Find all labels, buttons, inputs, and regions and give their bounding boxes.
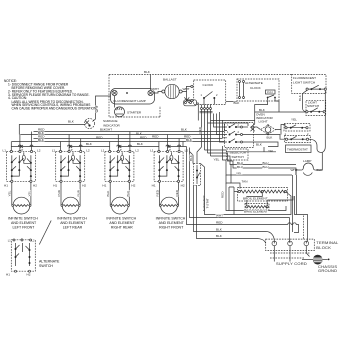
element right rear [106,182,136,229]
svg-text:SWITCH: SWITCH [307,104,319,108]
svg-text:BLK: BLK [68,120,75,124]
svg-text:WHT: WHT [152,87,159,91]
wire into oven indicator [251,112,286,131]
svg-text:SWITCH: SWITCH [232,155,244,159]
wire bus snake 5 [11,145,186,147]
svg-text:H2: H2 [33,184,37,188]
wire middle fan to selector [198,114,227,143]
svg-text:H1: H1 [152,184,156,188]
svg-text:BLK: BLK [256,143,263,147]
svg-text:BLK: BLK [216,234,223,238]
wire fluorescent switch right down through light switch [322,90,325,152]
svg-text:YEL: YEL [27,190,31,196]
notice text [4,79,97,111]
svg-text:BLK: BLK [38,138,45,142]
svg-text:H2: H2 [181,184,185,188]
svg-text:WHT: WHT [183,87,190,91]
fluorescent light switch [292,75,327,94]
svg-text:BLK: BLK [186,138,193,142]
svg-text:L1: L1 [150,149,154,153]
svg-text:WHT: WHT [95,105,99,112]
svg-text:ALTERNATE: ALTERNATE [245,81,263,85]
svg-text:H2: H2 [82,184,86,188]
svg-text:BLOCK: BLOCK [316,245,331,250]
svg-text:PUR: PUR [57,189,61,196]
svg-text:BLK: BLK [126,190,130,197]
svg-text:YEL: YEL [291,117,297,121]
svg-text:CAN CAUSE IMPROPER AND DANGERO: CAN CAUSE IMPROPER AND DANGEROUS OPERATI… [12,107,98,111]
wire drops to infinite switch 1 [11,132,31,151]
wire yel row [214,146,293,232]
wire alternate clock to light switch horizontal [255,101,306,112]
oven indicator light [256,112,276,135]
svg-text:BAKE ELEMENT: BAKE ELEMENT [244,209,268,213]
thermostat label [268,145,311,153]
fluorescent lamp [111,89,155,105]
svg-text:WHT: WHT [216,214,223,218]
element right front [155,182,185,229]
svg-text:LEFT REAR: LEFT REAR [63,225,83,229]
svg-text:YEL: YEL [214,158,220,162]
alternate clock [237,79,279,101]
svg-text:BLK: BLK [189,154,193,161]
oven lamp [291,159,324,176]
svg-text:YEL: YEL [268,149,274,153]
harness bundle below clock [200,104,213,156]
svg-text:RIGHT FRONT: RIGHT FRONT [159,225,184,229]
selector switch label [227,149,249,160]
wire bus BLK 4 [12,138,225,146]
wire lamp left to starter and surface indicator [93,96,115,122]
svg-text:RED: RED [220,191,224,198]
thermostat contacts row 1 [284,124,310,132]
ballast [152,77,190,98]
svg-text:GROUND: GROUND [318,268,337,273]
wire ballast to clock [182,86,198,120]
infinite switch left front [3,148,41,188]
leader line alternate switch [39,221,51,245]
svg-text:H1: H1 [53,184,57,188]
infinite switch right front [150,148,188,188]
light switch [306,100,326,115]
terminal block [266,239,339,251]
svg-text:RED: RED [198,126,202,133]
wire bus left top BLK [19,120,84,135]
svg-text:P: P [71,148,73,152]
svg-text:BLK: BLK [86,142,93,146]
wire clock to alternate clock [226,101,241,105]
svg-text:L2: L2 [37,149,41,153]
svg-text:BLK: BLK [106,190,110,197]
infinite switch left rear [52,148,90,188]
thermostat contacts row 2 [285,132,311,143]
svg-text:LEFT FRONT: LEFT FRONT [13,225,36,229]
wire right column to terminal block [290,175,308,241]
wire broil loop [220,183,293,215]
wire thermostat right curve [309,139,323,167]
svg-text:BLK: BLK [181,128,188,132]
wire middle column verticals [183,142,202,239]
alternate switch [6,238,60,277]
wire lamp to ballast [151,75,162,94]
svg-text:BLK: BLK [100,128,107,132]
svg-text:P: P [120,148,122,152]
svg-text:BLK: BLK [137,142,144,146]
svg-text:H2: H2 [27,273,31,277]
svg-text:P: P [169,148,171,152]
svg-text:L2: L2 [86,149,90,153]
svg-text:H1: H1 [6,273,10,277]
infinite switch right rear [101,148,139,188]
svg-text:SWITCH: SWITCH [39,264,53,268]
auxiliary t-stat [194,164,210,212]
wire tan row [226,164,247,189]
wire drops to infinite switch 3 [110,132,130,151]
svg-text:STARTER: STARTER [127,110,142,114]
chassis ground [302,246,337,273]
fluorescent lamp enclosure [109,75,160,118]
svg-text:BALLAST: BALLAST [163,77,177,81]
svg-text:RED: RED [216,221,223,225]
svg-text:RED: RED [175,189,179,196]
svg-text:SELECTOR: SELECTOR [230,151,247,155]
svg-text:L1: L1 [3,149,7,153]
wire bus RED 3 [34,135,223,139]
svg-text:L1: L1 [52,149,56,153]
svg-text:YEL: YEL [236,171,242,175]
svg-text:RED: RED [96,136,103,140]
svg-text:PUR: PUR [77,189,81,196]
svg-text:RED: RED [152,135,159,139]
svg-text:YEL: YEL [8,190,12,196]
wire yel left of thermostat [220,112,277,152]
svg-text:BLK: BLK [234,101,241,105]
wire bus RED 1 [34,128,225,136]
svg-text:H1: H1 [4,184,8,188]
wire bottom buses [190,214,299,244]
wire fluorescent switch to light switch [298,90,307,112]
svg-text:RIGHT REAR: RIGHT REAR [111,225,133,229]
svg-text:BLK: BLK [216,228,223,232]
wire top BLK bus [109,70,292,75]
svg-text:SUPPLY CORD: SUPPLY CORD [276,261,307,266]
svg-text:H1: H1 [102,184,106,188]
bake element [244,204,269,214]
wire aux t-stat to buses [201,164,235,215]
svg-text:CLOCK: CLOCK [203,83,215,87]
svg-text:BLU: BLU [263,165,269,169]
surface indicator light [85,119,121,132]
svg-text:RED: RED [140,136,147,140]
element left rear [57,182,87,229]
svg-text:BLK: BLK [298,94,302,101]
svg-text:L1: L1 [101,149,105,153]
broil element [238,179,288,201]
svg-text:FLUORESCENT LAMP: FLUORESCENT LAMP [114,99,146,103]
svg-text:H2: H2 [131,184,135,188]
svg-text:RED: RED [155,189,159,196]
wire clock area to oven indicator row [208,121,255,127]
wire bus into terminal block [274,241,306,243]
wire drops to infinite switch 4 [159,135,179,151]
element left front [8,182,38,229]
svg-text:BLU: BLU [237,165,243,169]
svg-text:LIGHT SWITCH: LIGHT SWITCH [293,80,315,84]
svg-text:TAN: TAN [242,179,248,183]
svg-text:LIGHT: LIGHT [259,120,268,124]
svg-text:ALTERNATE: ALTERNATE [39,260,60,264]
svg-text:CLOCK: CLOCK [250,86,262,90]
wire bus BLK 2 [20,131,219,139]
svg-text:THERMOSTAT: THERMOSTAT [287,147,308,151]
supply cord [270,246,310,266]
svg-text:BROIL ELEMENT: BROIL ELEMENT [243,197,268,201]
selector switch contacts [225,123,254,148]
svg-text:BLK: BLK [259,108,266,112]
svg-text:BLK: BLK [144,70,151,74]
svg-text:P: P [22,148,24,152]
svg-text:LAMP: LAMP [303,159,311,163]
wire blu rows [205,150,297,175]
wire drops to infinite switch 2 [61,135,81,151]
clock [191,80,226,104]
svg-text:L2: L2 [135,149,139,153]
svg-text:BLK: BLK [267,136,274,140]
svg-text:13-14: 13-14 [267,92,274,94]
wire selector to thermostat [243,117,298,146]
svg-text:T-STAT: T-STAT [206,198,210,208]
starter [115,107,142,117]
